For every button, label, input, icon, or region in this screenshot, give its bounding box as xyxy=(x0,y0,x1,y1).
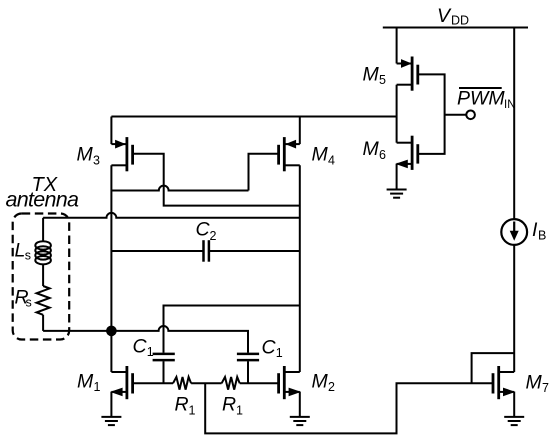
svg-text:2: 2 xyxy=(328,380,335,394)
svg-text:s: s xyxy=(26,296,32,310)
svg-text:M: M xyxy=(312,370,329,392)
svg-text:C: C xyxy=(262,337,277,359)
svg-text:M: M xyxy=(526,371,543,393)
svg-text:5: 5 xyxy=(379,73,386,87)
svg-text:B: B xyxy=(538,229,546,243)
svg-text:R: R xyxy=(222,394,236,416)
svg-text:M: M xyxy=(363,138,380,160)
svg-text:3: 3 xyxy=(93,153,100,167)
svg-text:7: 7 xyxy=(542,381,549,395)
svg-text:s: s xyxy=(25,249,31,263)
svg-text:1: 1 xyxy=(276,346,283,360)
svg-text:antenna: antenna xyxy=(6,188,80,212)
svg-text:M: M xyxy=(77,370,94,392)
svg-text:1: 1 xyxy=(189,403,196,417)
svg-text:L: L xyxy=(15,239,26,261)
svg-text:M: M xyxy=(77,144,94,166)
svg-text:M: M xyxy=(312,144,329,166)
svg-text:R: R xyxy=(175,394,189,416)
svg-text:C: C xyxy=(196,219,211,241)
svg-text:PWM: PWM xyxy=(457,88,505,110)
svg-text:1: 1 xyxy=(147,345,154,359)
svg-text:C: C xyxy=(133,335,148,357)
svg-text:4: 4 xyxy=(328,153,335,167)
svg-text:6: 6 xyxy=(379,148,386,162)
svg-text:M: M xyxy=(363,63,380,85)
svg-text:IN: IN xyxy=(504,99,516,111)
svg-text:1: 1 xyxy=(94,380,101,394)
svg-text:2: 2 xyxy=(210,229,217,243)
svg-text:1: 1 xyxy=(236,403,243,417)
svg-text:V: V xyxy=(437,5,452,27)
svg-text:DD: DD xyxy=(451,14,469,28)
